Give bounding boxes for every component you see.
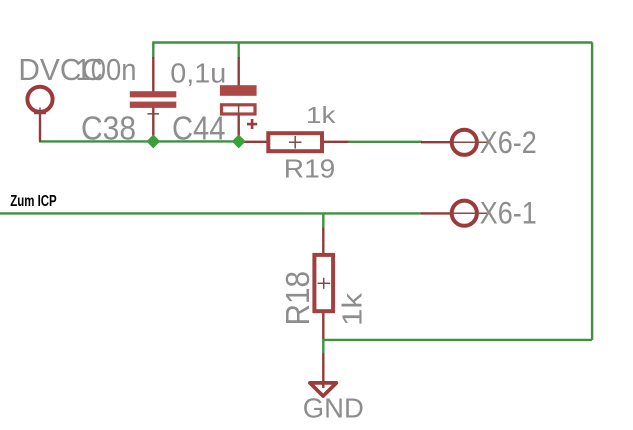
lead X6-2 (421, 141, 451, 143)
capacitor C44 bottom plate (hollow) (222, 105, 256, 114)
wire R19 to X6-2 (348, 141, 422, 143)
svg-text:GND: GND (303, 392, 364, 423)
junction at C44 (232, 134, 246, 148)
pin X6-1 line (450, 212, 488, 214)
lead GND (322, 353, 324, 388)
svg-text:1k: 1k (336, 292, 367, 326)
svg-text:Zum ICP: Zum ICP (10, 193, 57, 210)
lead R19 right (324, 141, 349, 143)
capacitor C38 plates (130, 91, 177, 97)
resistor R18 box (314, 255, 333, 311)
lead C44 bottom (237, 115, 239, 142)
lead DVCC pin down (39, 113, 41, 142)
svg-text:1k: 1k (306, 102, 336, 128)
pin X6-2 line (450, 141, 488, 143)
pin DVCC circle (27, 87, 52, 112)
svg-text:R18: R18 (280, 271, 317, 326)
lead C44 top (237, 57, 239, 86)
capacitor C44 top plate (220, 85, 257, 96)
pin X6-1 circle (452, 201, 477, 226)
junction at C38 (146, 134, 160, 148)
svg-text:X6-2: X6-2 (480, 125, 537, 160)
origin cross R18 (318, 282, 331, 284)
pin X6-2 circle (452, 130, 477, 155)
origin cross R19 (289, 141, 302, 143)
wire stub down to R18 (322, 213, 324, 228)
resistor R19 box (268, 133, 322, 151)
origin cross DVCC (34, 113, 46, 115)
wire net N$1 top horizontal (152, 41, 592, 43)
C44 polarity plus (251, 119, 254, 129)
svg-text:C38: C38 (81, 110, 136, 147)
C44 pin line through plate (238, 104, 240, 119)
lead C38 bottom (152, 108, 154, 142)
lead R18 top (322, 228, 324, 255)
wire stub to C44 top (237, 43, 239, 59)
lead X6-1 (421, 212, 451, 214)
wire below R18 (322, 338, 324, 354)
wire stub to C38 top (152, 43, 154, 59)
svg-text:X6-1: X6-1 (480, 196, 537, 231)
ground GND symbol (310, 383, 337, 396)
origin cross C38 (148, 113, 160, 115)
lead R18 bottom (322, 312, 324, 339)
svg-text:R19: R19 (284, 154, 336, 184)
wire main horizontal from DVCC (39, 140, 244, 142)
lead R19 left (243, 141, 267, 143)
svg-text:C44: C44 (172, 110, 226, 147)
wire bottom horizontal (323, 339, 592, 341)
wire right vertical (591, 43, 593, 340)
svg-text:0,1u: 0,1u (170, 58, 226, 89)
wire Zum ICP net (0, 212, 422, 214)
svg-text:100n: 100n (76, 53, 137, 87)
lead C38 top (152, 57, 154, 92)
